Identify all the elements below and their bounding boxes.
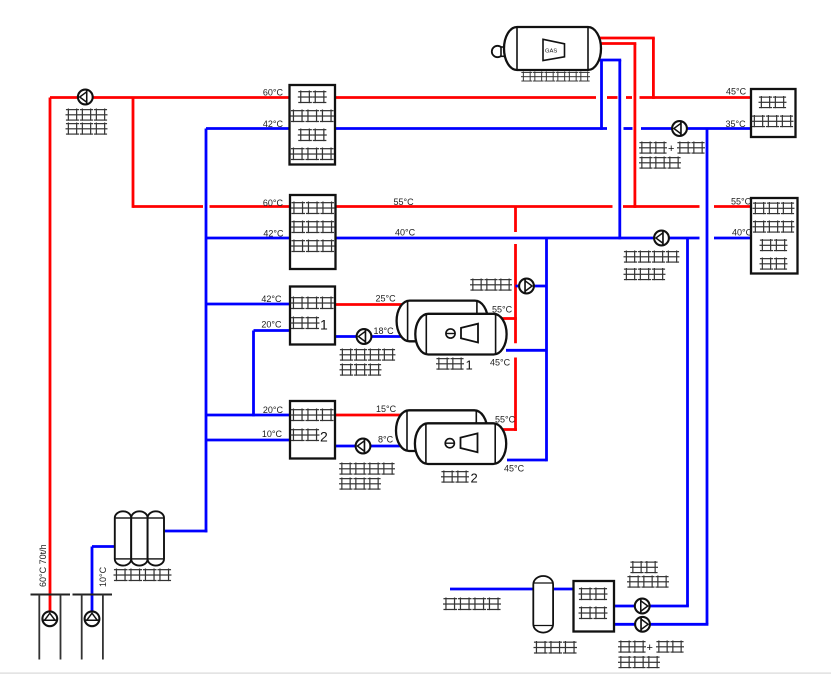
svg-text:55°C: 55°C xyxy=(731,197,752,207)
svg-text:20°C: 20°C xyxy=(263,405,284,415)
svg-text:20°C: 20°C xyxy=(261,320,282,330)
svg-text:GAS: GAS xyxy=(545,49,557,55)
svg-text:8°C: 8°C xyxy=(378,435,394,445)
svg-text:42°C: 42°C xyxy=(263,119,284,129)
svg-text:35°C: 35°C xyxy=(726,119,747,129)
svg-text:55°C: 55°C xyxy=(495,415,516,425)
svg-text:+: + xyxy=(668,143,674,155)
svg-text:40°C: 40°C xyxy=(732,228,753,238)
svg-text:60°C: 60°C xyxy=(263,198,284,208)
svg-text:45°C: 45°C xyxy=(490,358,511,368)
svg-text:45°C: 45°C xyxy=(504,464,525,474)
svg-text:55°C: 55°C xyxy=(394,197,415,207)
svg-text:1: 1 xyxy=(466,358,473,373)
svg-text:42°C: 42°C xyxy=(263,229,284,239)
svg-text:+: + xyxy=(647,642,653,654)
svg-text:55°C: 55°C xyxy=(492,305,513,315)
svg-text:40°C: 40°C xyxy=(395,228,416,238)
svg-text:2: 2 xyxy=(320,429,328,445)
svg-text:60°C: 60°C xyxy=(263,88,284,98)
svg-text:15°C: 15°C xyxy=(376,404,397,414)
svg-text:60°C 70t/h: 60°C 70t/h xyxy=(38,544,48,587)
svg-text:18°C: 18°C xyxy=(374,326,395,336)
svg-text:2: 2 xyxy=(471,471,478,486)
svg-text:1: 1 xyxy=(320,317,328,333)
svg-text:25°C: 25°C xyxy=(376,294,397,304)
svg-text:42°C: 42°C xyxy=(261,294,282,304)
svg-text:45°C: 45°C xyxy=(726,87,747,97)
svg-text:10°C: 10°C xyxy=(262,429,283,439)
svg-text:10°C: 10°C xyxy=(98,566,108,587)
